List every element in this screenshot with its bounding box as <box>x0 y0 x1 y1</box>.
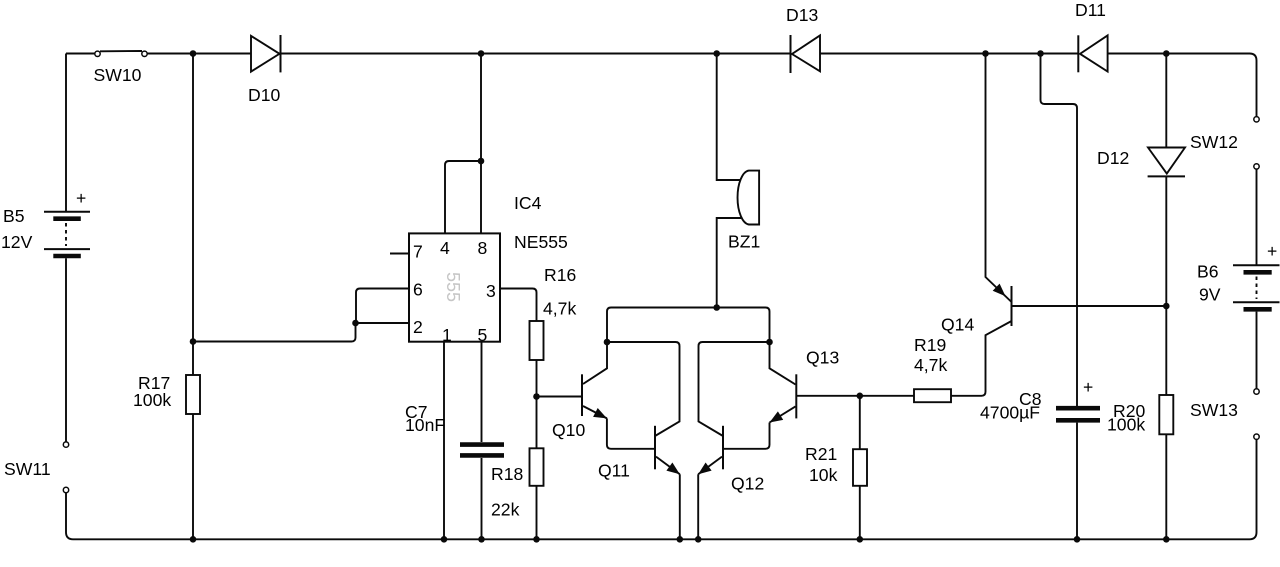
resistor R21 <box>853 449 867 486</box>
wire Q14 base to D12/R20 node <box>1012 305 1167 307</box>
svg-text:R21: R21 <box>805 444 837 464</box>
node C7 bottom rail <box>478 536 485 543</box>
wire pin4 branch <box>445 161 481 233</box>
battery B5 <box>44 212 90 256</box>
svg-text:+: + <box>1083 377 1093 397</box>
switch SW12 <box>1254 117 1259 169</box>
node pin2/pin6 junction <box>352 320 359 327</box>
transistor Q12 <box>698 426 723 540</box>
wire D11 to D12 node <box>1108 53 1167 55</box>
wire BZ1 lower lead <box>717 218 741 308</box>
transistor Q13 <box>723 342 796 449</box>
wire SW10 to node <box>147 53 251 55</box>
svg-text:8: 8 <box>478 238 488 258</box>
svg-text:7: 7 <box>413 242 423 262</box>
node left collector junction <box>604 339 611 346</box>
svg-text:Q12: Q12 <box>731 474 764 494</box>
wire R17 to bottom rail <box>192 414 194 539</box>
wire C8 branch: top rail down and over <box>1041 54 1078 407</box>
svg-text:B6: B6 <box>1197 262 1219 282</box>
svg-text:4,7k: 4,7k <box>543 299 576 319</box>
wire pin 7 stub <box>390 253 409 255</box>
wire BZ1 upper lead <box>717 54 740 181</box>
node cluster top rail center <box>713 304 720 311</box>
wire Q10 base <box>537 396 583 398</box>
node R17 / pin2 wire junction <box>190 338 197 345</box>
svg-text:Q14: Q14 <box>941 315 974 335</box>
wire B5 to SW11 <box>65 258 67 442</box>
wire pin8 vertical from top rail <box>480 54 482 234</box>
node pin4 branch <box>478 158 485 165</box>
svg-text:12V: 12V <box>1 232 33 252</box>
node pin1 bottom rail <box>441 536 448 543</box>
wire R17 vertical from top rail <box>192 54 194 376</box>
wire Q14 node to C8 branch node <box>986 53 1041 55</box>
svg-text:100k: 100k <box>133 390 171 410</box>
node D12 branch <box>1163 50 1170 57</box>
diode D12 <box>1148 148 1185 177</box>
diode D11 <box>1078 35 1107 72</box>
wire SW11 to bottom rail corner <box>66 493 73 540</box>
resistor R20 <box>1159 395 1173 434</box>
resistor R18 <box>530 448 544 486</box>
switch SW11 <box>63 442 68 493</box>
node Q14 base / D12 / R20 <box>1163 303 1170 310</box>
wire left vertical from top rail to battery B5 <box>65 54 67 212</box>
svg-text:D11: D11 <box>1075 0 1106 20</box>
svg-text:NE555: NE555 <box>514 232 568 252</box>
resistor R19 <box>914 389 951 402</box>
wire SW12 to battery B6 <box>1256 169 1258 265</box>
svg-text:4: 4 <box>440 238 450 258</box>
capacitor C7 <box>460 445 504 456</box>
svg-text:BZ1: BZ1 <box>728 232 760 252</box>
svg-text:IC4: IC4 <box>514 193 542 213</box>
wire pin 3 to R16 <box>500 289 537 322</box>
transistor Q11 <box>655 426 680 540</box>
switch SW13 <box>1254 389 1259 440</box>
wire C8 to bottom rail <box>1076 423 1078 540</box>
svg-text:22k: 22k <box>491 500 520 520</box>
svg-text:4700µF: 4700µF <box>980 403 1040 423</box>
wire D13 to Q14 node <box>820 53 986 55</box>
svg-text:100k: 100k <box>1107 415 1145 435</box>
svg-text:3: 3 <box>486 281 496 301</box>
wire pin2 net: R17 junction to 555 pin 2 <box>193 323 409 342</box>
node R18 bottom rail <box>533 536 540 543</box>
wire top rail left segment <box>66 53 95 55</box>
svg-text:R16: R16 <box>544 265 576 285</box>
svg-text:R19: R19 <box>914 335 946 355</box>
node Q13 base / R21 / R19 <box>857 393 864 400</box>
svg-text:SW12: SW12 <box>1190 132 1238 152</box>
svg-text:B5: B5 <box>3 206 25 226</box>
resistor R17 <box>186 375 200 414</box>
wire top rail to BZ1 node <box>481 53 717 55</box>
wire bottom rail right corner <box>1250 439 1257 539</box>
svg-text:R18: R18 <box>491 464 523 484</box>
wire pin 5 to C7 <box>481 342 483 442</box>
node Q12 emitter bottom rail <box>695 536 702 543</box>
resistor R16 <box>530 321 544 360</box>
node R17 bottom rail <box>190 536 197 543</box>
svg-text:Q11: Q11 <box>598 461 630 481</box>
svg-text:SW10: SW10 <box>94 65 142 85</box>
node R16/R18/Q10 base junction <box>533 393 540 400</box>
battery B6 <box>1233 265 1280 309</box>
wire B6 to SW13 <box>1256 312 1258 389</box>
svg-text:4,7k: 4,7k <box>914 355 947 375</box>
svg-text:555: 555 <box>443 272 463 302</box>
svg-text:D12: D12 <box>1097 148 1129 168</box>
svg-text:SW13: SW13 <box>1190 400 1238 420</box>
wire R19 to Q14 collector <box>951 321 1012 396</box>
wire pin 1 to bottom rail <box>443 342 445 540</box>
svg-text:10k: 10k <box>809 465 838 485</box>
node right collector junction <box>766 339 773 346</box>
wire C7 to bottom rail <box>481 458 483 539</box>
svg-text:SW11: SW11 <box>4 459 51 479</box>
node Q11 emitter bottom rail <box>677 536 684 543</box>
svg-text:Q10: Q10 <box>552 420 585 440</box>
wire pin 6 to junction <box>356 289 409 324</box>
transistor Q14 <box>986 54 1012 327</box>
node C8 branch <box>1037 50 1044 57</box>
buzzer BZ1 <box>738 171 760 225</box>
svg-text:10nF: 10nF <box>405 415 445 435</box>
svg-text:5: 5 <box>478 325 488 345</box>
node Q14 emitter riser <box>982 50 989 57</box>
wire R21 leads <box>859 396 861 540</box>
transistor Q10 <box>582 342 655 449</box>
wire Q11 collector net <box>607 342 680 436</box>
wire C8 branch node to D11 <box>1041 53 1079 55</box>
diode D13 <box>791 35 821 73</box>
wire D12 to R20 <box>1165 176 1167 395</box>
IC IC4 NE555 box <box>409 233 500 341</box>
wire R20 to bottom rail <box>1165 434 1167 539</box>
svg-text:9V: 9V <box>1199 285 1221 305</box>
node C8 bottom rail <box>1074 536 1081 543</box>
node top of R17 branch <box>190 50 197 57</box>
wire R16 to junction <box>536 360 538 448</box>
wire Q13 base to R21 node <box>796 395 914 397</box>
wire BZ1 node to D13 <box>717 53 791 55</box>
wire top rail right corner down to SW12 <box>1166 54 1256 117</box>
node pin8 riser <box>478 50 485 57</box>
capacitor C8 <box>1056 408 1100 420</box>
wire bottom rail <box>73 538 1250 540</box>
node BZ1 riser <box>713 50 720 57</box>
wire D10 to pin8 node <box>281 53 482 55</box>
svg-text:+: + <box>76 188 86 208</box>
node R21 bottom rail <box>857 536 864 543</box>
svg-text:2: 2 <box>413 317 423 337</box>
node R20 bottom rail <box>1163 536 1170 543</box>
svg-text:+: + <box>1267 241 1277 261</box>
wire D12 branch vertical <box>1165 54 1167 148</box>
svg-text:D13: D13 <box>786 5 818 25</box>
svg-text:Q13: Q13 <box>806 348 839 368</box>
diode D10 <box>251 35 281 72</box>
wire cluster top rail <box>607 308 770 343</box>
switch SW10 <box>95 51 147 57</box>
svg-text:D10: D10 <box>248 85 280 105</box>
svg-text:6: 6 <box>413 280 423 300</box>
wire R18 to bottom rail <box>536 486 538 540</box>
wire Q12 collector net <box>699 342 770 436</box>
